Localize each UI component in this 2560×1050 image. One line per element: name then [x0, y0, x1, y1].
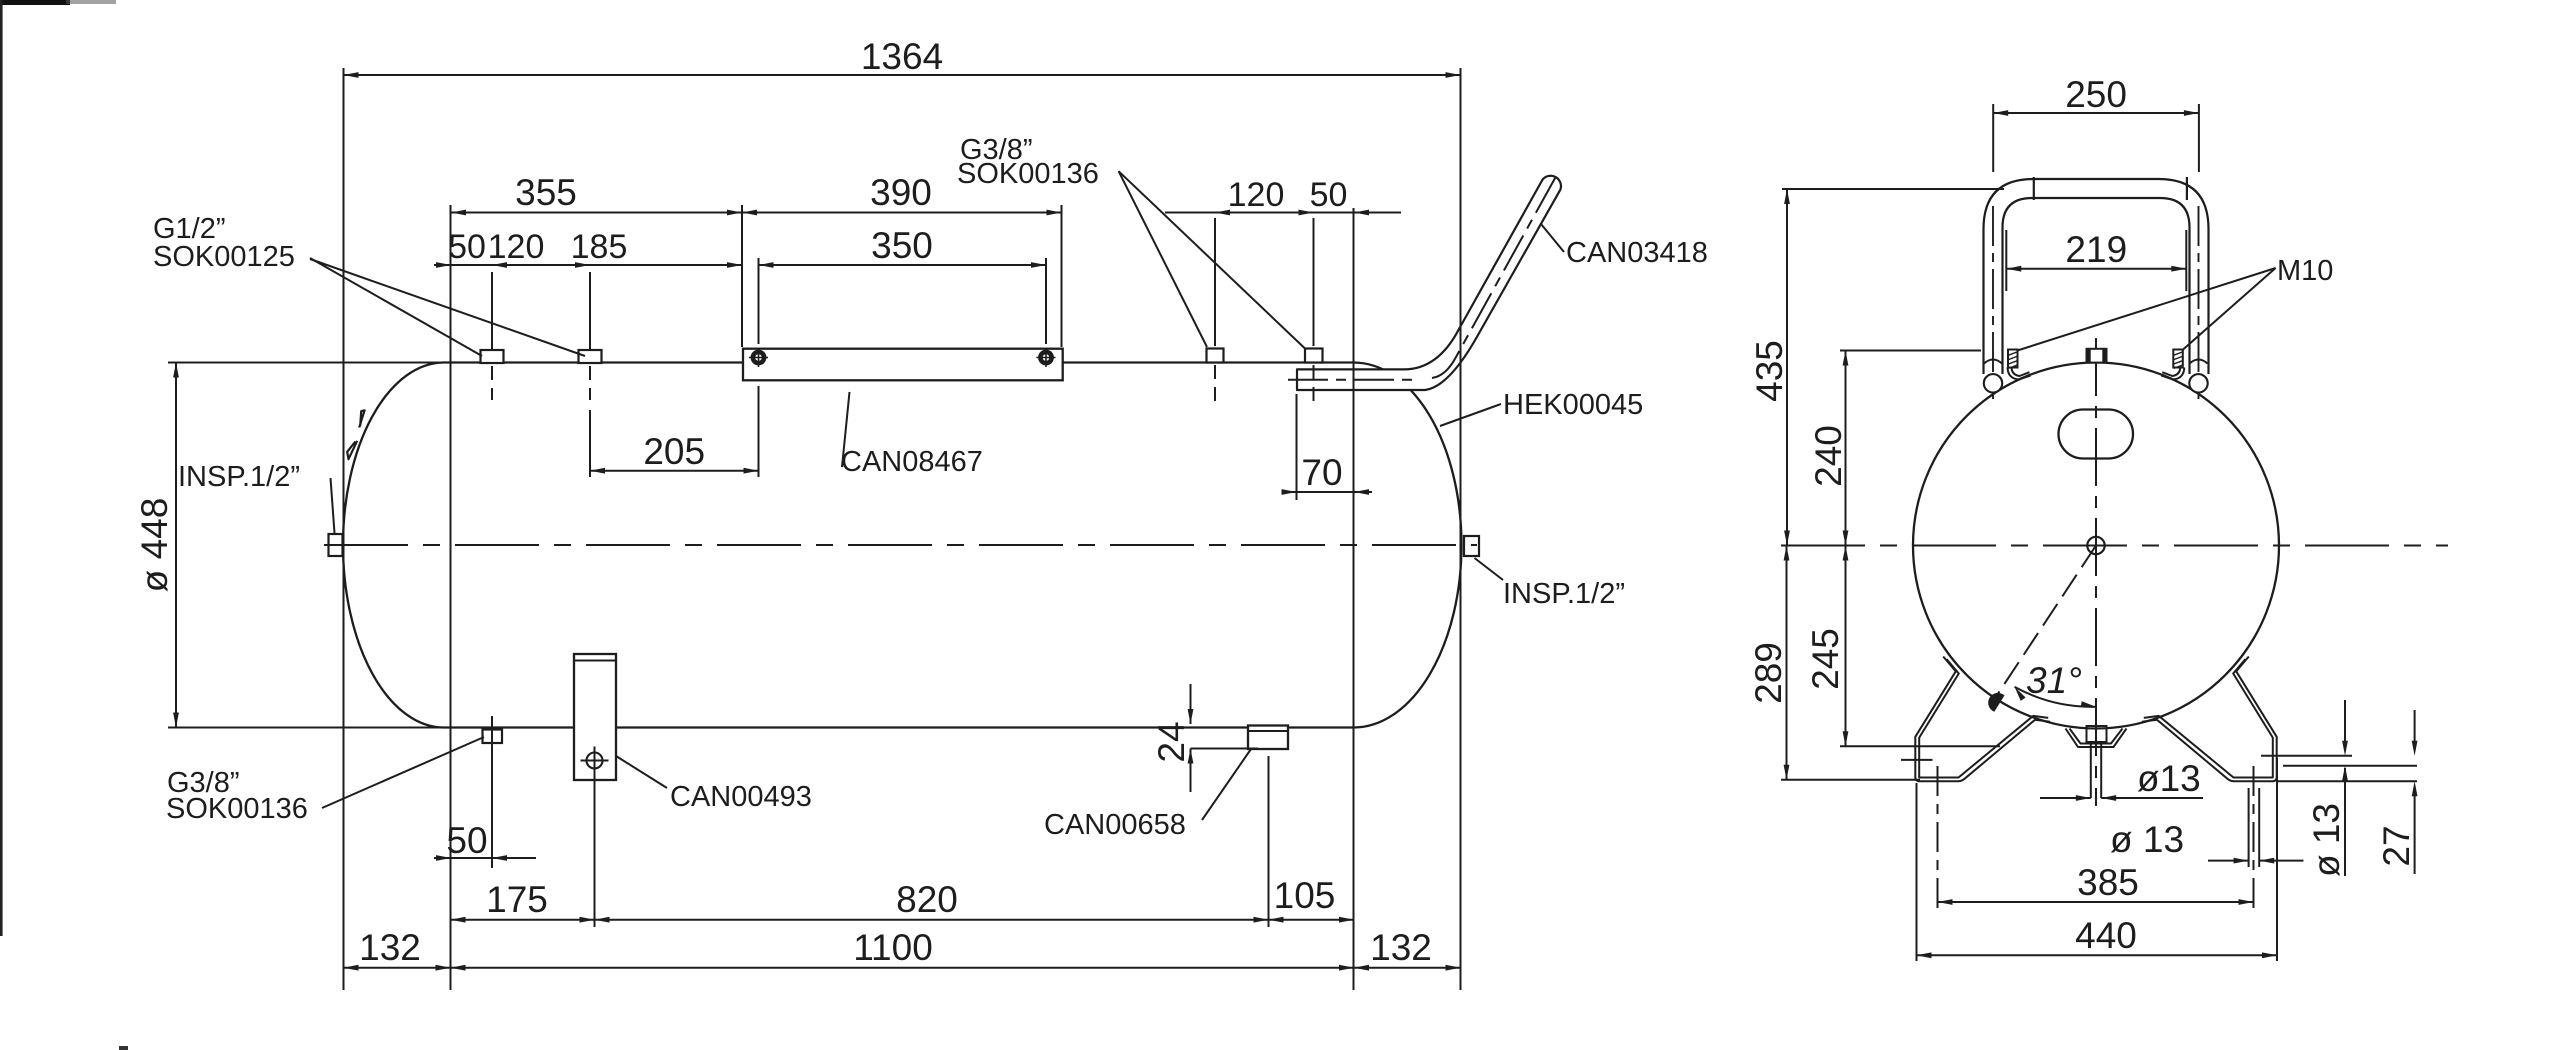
svg-text:50: 50 [448, 228, 486, 266]
J hook left [2008, 368, 2031, 380]
leader CAN03418 [1541, 224, 1564, 252]
fitting INSP.1/2 right head [1464, 536, 1479, 556]
weld seam right / extension x=1353.5 [1353, 208, 1355, 990]
handle leg centerlines [1992, 206, 1994, 399]
dim 245 [1840, 745, 2000, 747]
M10 stud right [2173, 350, 2183, 368]
left leg inner [1919, 659, 2048, 777]
svg-text:440: 440 [2075, 915, 2137, 956]
svg-text:HEK00045: HEK00045 [1503, 389, 1643, 421]
dim 390 [1061, 205, 1063, 347]
end view vertical centerline [2095, 338, 2097, 806]
svg-text:50: 50 [1310, 176, 1348, 214]
svg-text:CAN08467: CAN08467 [841, 446, 983, 478]
scan artifact: bottom mark [119, 1046, 128, 1050]
dim 250 [1992, 104, 1994, 172]
dim 132/1100/132 chain [344, 967, 1461, 969]
svg-text:185: 185 [571, 228, 628, 266]
weld wedge [1988, 693, 2004, 712]
dim 1364 [343, 68, 345, 990]
handle CAN03418 (side view) [1297, 176, 1561, 390]
dim 50/120/185 chain [491, 272, 493, 350]
left leg outer [1915, 657, 2050, 782]
break marks on left head arc [359, 410, 364, 427]
dim 435 [1782, 188, 2004, 190]
dim 289 [1781, 779, 1920, 781]
angle arc 31deg [2015, 687, 2096, 707]
dim dia13 foot bottom [2208, 860, 2249, 862]
right leg inner [2144, 659, 2273, 777]
svg-text:175: 175 [486, 879, 548, 920]
svg-text:240: 240 [1808, 425, 1849, 487]
fitting G3/8 SOK00136 bottom [483, 730, 503, 744]
svg-text:250: 250 [2065, 74, 2127, 115]
svg-text:24: 24 [1151, 721, 1192, 762]
scan artifact: top-left border [0, 0, 70, 5]
weld seam left / extension x=450.5 [450, 205, 452, 990]
right foot bottom ext [2277, 780, 2417, 782]
fitting G1/2 SOK00125 #1 [481, 350, 504, 363]
handle inner contour (end view) [2003, 198, 2190, 374]
svg-text:SOK00136: SOK00136 [957, 158, 1099, 190]
svg-text:245: 245 [1805, 628, 1846, 690]
svg-text:CAN00658: CAN00658 [1044, 809, 1186, 841]
leader CAN00658 [1202, 749, 1251, 820]
svg-text:ø13: ø13 [2137, 758, 2201, 799]
dim 385 [1937, 766, 1939, 908]
dim 24 [1190, 684, 1192, 724]
leader M10 [2017, 268, 2275, 351]
leader INSP left [331, 478, 335, 533]
tank centerline (side view) [324, 544, 1477, 546]
leader SOK00136 bottom [322, 737, 484, 808]
svg-text:132: 132 [1370, 927, 1432, 968]
handle tangent ticks [2033, 177, 2035, 200]
bracket CAN00658 [1248, 726, 1288, 750]
fitting G3/8 SOK00136 top #1 [1207, 349, 1224, 363]
leader CAN00493 [616, 756, 667, 788]
dim dia448 [168, 362, 443, 364]
svg-text:205: 205 [643, 431, 705, 472]
dim 440 [1916, 783, 1918, 961]
svg-text:390: 390 [870, 172, 932, 213]
svg-text:31°: 31° [2026, 660, 2082, 701]
svg-text:120: 120 [1228, 176, 1285, 214]
right leg outer [2142, 657, 2277, 782]
svg-text:SOK00136: SOK00136 [166, 793, 308, 825]
svg-text:50: 50 [446, 820, 487, 861]
svg-text:820: 820 [896, 879, 958, 920]
dim 70 [1296, 394, 1298, 500]
dim 175/820/105 chain [594, 770, 596, 927]
dim 50 bottom [491, 716, 493, 868]
dim 350 [758, 258, 760, 344]
svg-text:355: 355 [515, 172, 577, 213]
bracket bolt left [753, 352, 764, 363]
center bracket (end view) [2066, 729, 2127, 748]
leader INSP right [1475, 558, 1504, 580]
center stud [2087, 349, 2107, 363]
right foot hole lines [2261, 755, 2352, 757]
svg-text:120: 120 [488, 228, 545, 266]
tank end circle [1913, 363, 2279, 729]
leader HEK00045 [1440, 404, 1501, 426]
left foot hole tick [1901, 759, 1933, 761]
svg-text:1364: 1364 [861, 36, 943, 77]
svg-text:1100: 1100 [853, 927, 933, 968]
right foot bottom hole [2248, 788, 2250, 867]
svg-text:INSP.1/2”: INSP.1/2” [178, 461, 300, 493]
svg-text:350: 350 [871, 225, 933, 266]
svg-text:ø 448: ø 448 [134, 498, 175, 593]
plate CAN00493 [574, 654, 616, 780]
fitting G1/2 SOK00125 #2 [579, 350, 602, 363]
svg-text:M10: M10 [2277, 255, 2333, 287]
fitting G3/8 SOK00136 top #2 [1305, 349, 1323, 363]
leader CAN08467 [842, 392, 850, 467]
svg-text:385: 385 [2077, 862, 2139, 903]
dim 240 [1840, 350, 1981, 352]
leader SOK00125 [310, 258, 482, 356]
handhole oblong [2059, 410, 2134, 459]
dashed ext below top fittings [491, 366, 493, 400]
svg-text:435: 435 [1749, 340, 1790, 402]
svg-text:ø 13: ø 13 [2306, 803, 2347, 877]
svg-text:132: 132 [359, 927, 421, 968]
dim 219 [2005, 230, 2007, 291]
bracket bolt right [1040, 352, 1051, 363]
dim dia13 side (rotated) [2344, 700, 2346, 743]
tank shell outline (side view) [343, 363, 1462, 728]
radial line 31deg [1990, 546, 2096, 706]
handle outer contour (end view) [1984, 179, 2209, 374]
svg-text:ø 13: ø 13 [2110, 819, 2184, 860]
svg-text:CAN00493: CAN00493 [670, 781, 812, 813]
center drain nut [2087, 726, 2107, 742]
center drain hole lines [2090, 742, 2092, 798]
bracket CAN08467 [743, 349, 1063, 381]
plate bolt [587, 753, 603, 769]
dim 205 [589, 410, 591, 477]
svg-text:INSP.1/2”: INSP.1/2” [1503, 578, 1625, 610]
handle end caps [1984, 374, 2002, 392]
dim dia13 center [2040, 797, 2091, 799]
svg-text:105: 105 [1274, 875, 1336, 916]
leader SOK00136 top [1119, 171, 1207, 347]
dim 355 [741, 205, 743, 347]
end view horizontal centerline [1781, 545, 2448, 547]
svg-text:27: 27 [2376, 825, 2417, 866]
center mark [2087, 537, 2104, 554]
J hook right [2161, 368, 2184, 380]
svg-text:289: 289 [1748, 642, 1789, 704]
svg-text:CAN03418: CAN03418 [1566, 237, 1708, 269]
dim 120/50 right [1214, 218, 1216, 346]
M10 stud left [2008, 350, 2018, 368]
svg-text:219: 219 [2065, 229, 2127, 270]
fitting INSP.1/2 left head [329, 534, 343, 556]
svg-text:70: 70 [1301, 452, 1342, 493]
dim 27 (rotated) [2414, 710, 2416, 744]
handle tube centerline (side view) [1288, 379, 1415, 381]
scan artifact: left border [0, 0, 3, 936]
svg-text:SOK00125: SOK00125 [153, 241, 295, 273]
